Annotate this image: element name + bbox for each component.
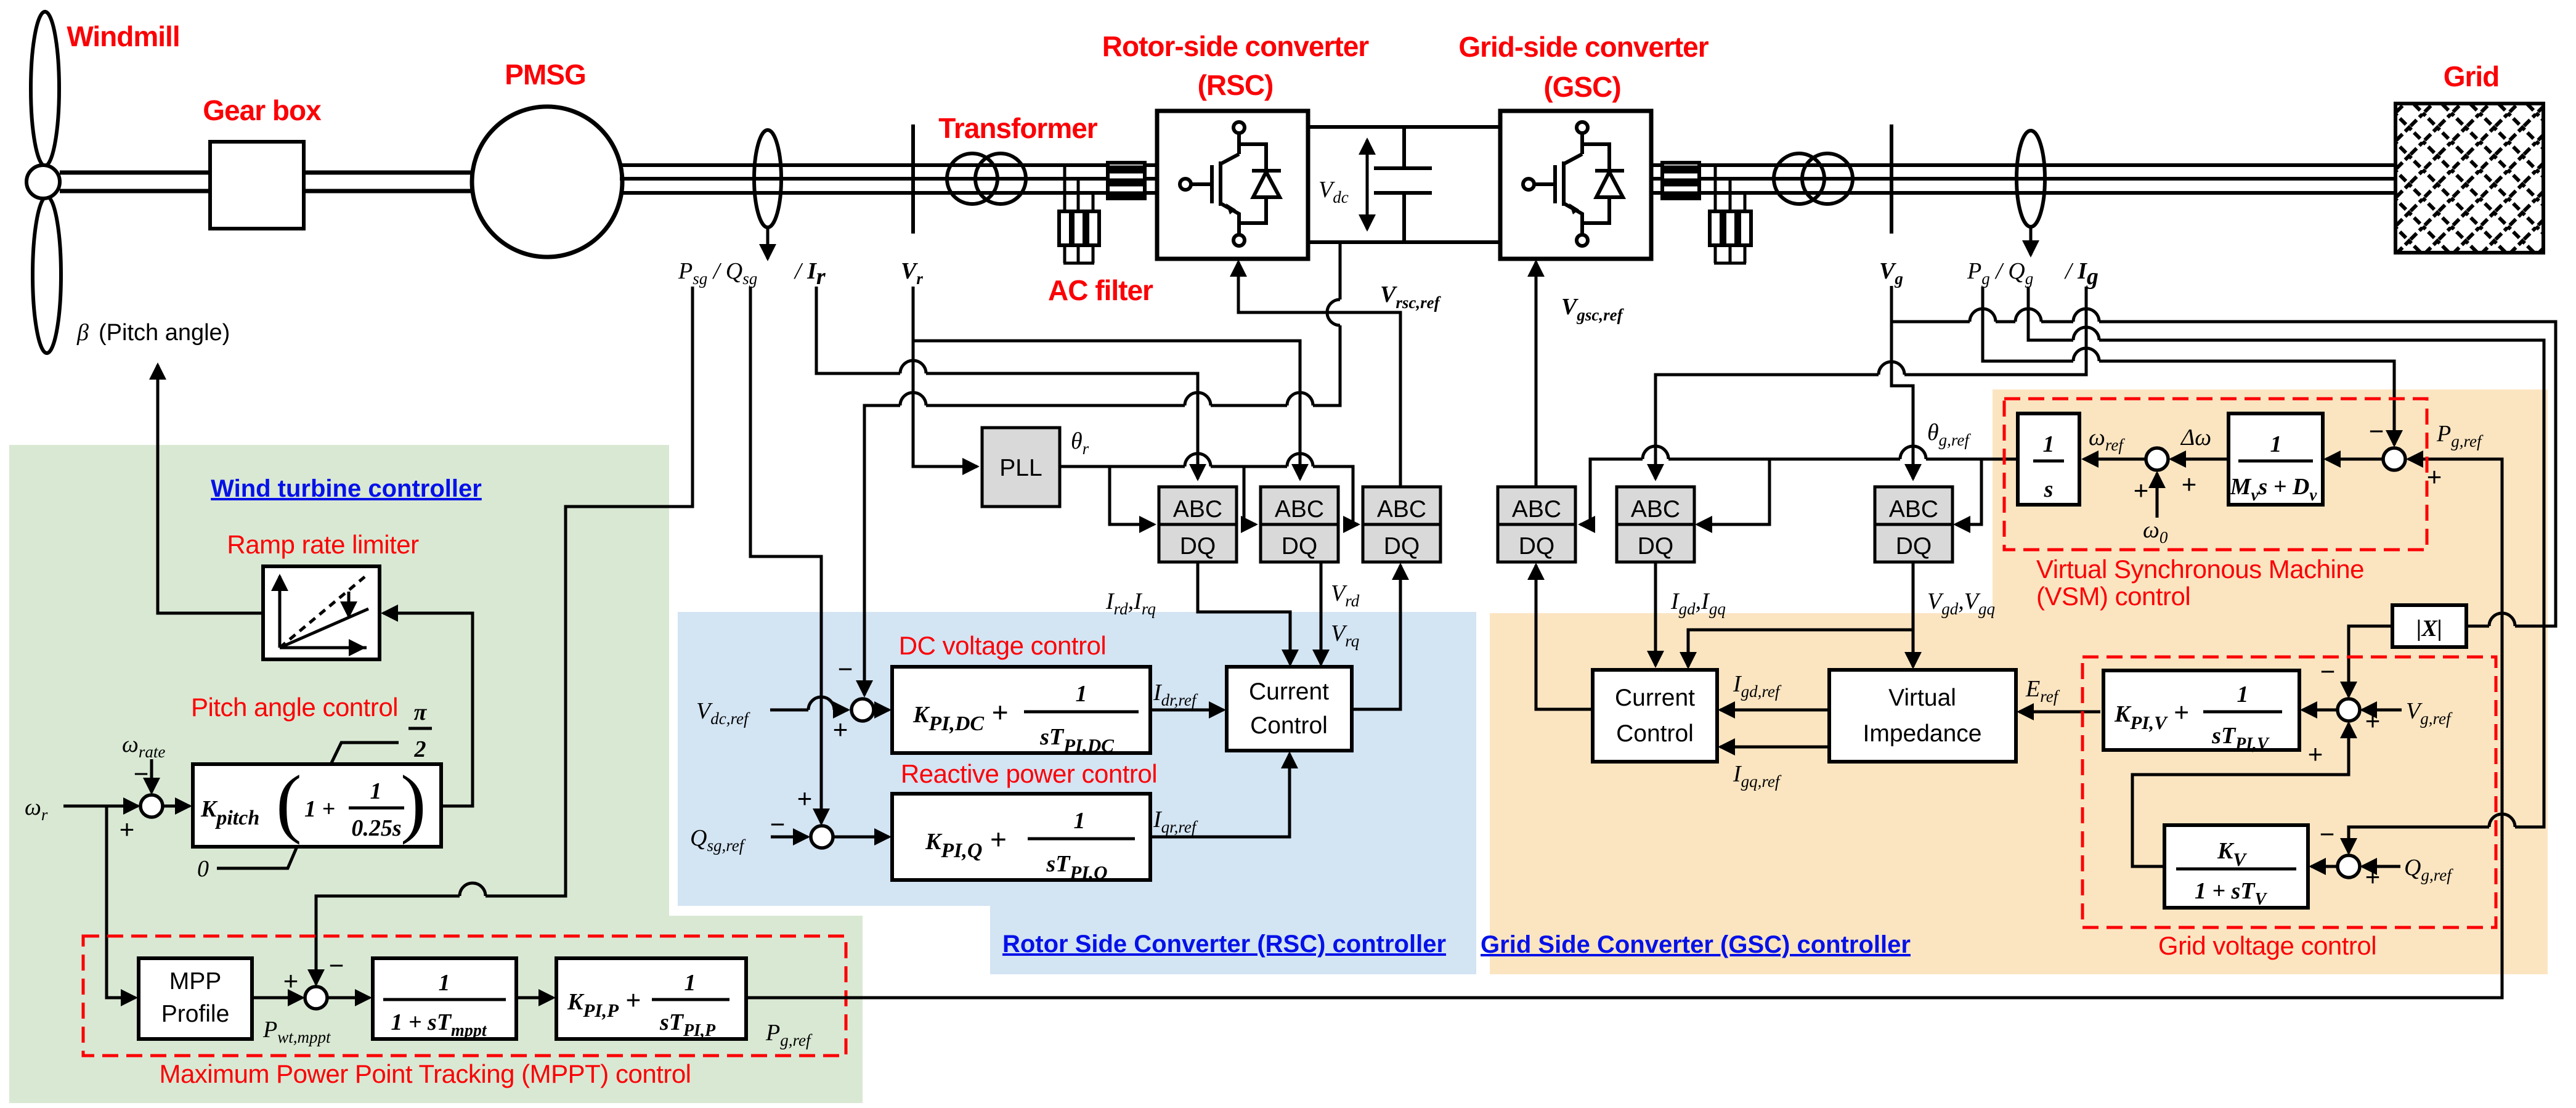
X box — [2392, 605, 2466, 647]
PMSG circle — [472, 107, 622, 257]
three-phase line PMSG to RSC — [620, 165, 1157, 193]
svg-text:ABC: ABC — [1889, 496, 1938, 523]
svg-text:DC voltage control: DC voltage control — [899, 631, 1107, 660]
RSC IGBT — [1180, 122, 1281, 246]
Vdc double arrow — [1366, 140, 1369, 229]
svg-text:Grid voltage control: Grid voltage control — [2158, 931, 2376, 960]
sum pitch — [140, 795, 163, 817]
current control RSC box — [1227, 667, 1352, 751]
saturation upper limit — [331, 743, 399, 764]
svg-text:(VSM) control: (VSM) control — [2036, 582, 2190, 611]
wire Ird Irq to CC — [1198, 562, 1290, 664]
ramp limiter dashed diagonal — [280, 577, 365, 648]
ABC/DQ box 4 — [1498, 487, 1575, 562]
wire Pgref long line — [746, 459, 2502, 998]
wire Vr branch to ABC2 — [913, 341, 1300, 479]
RSC controller blue region — [678, 612, 1476, 974]
KPI,V box — [2103, 670, 2299, 750]
svg-text:Wind turbine controller: Wind turbine controller — [211, 475, 482, 502]
gear box — [210, 142, 304, 229]
wire Vdc sense — [864, 242, 1340, 695]
ramp limiter solid diagonal — [280, 609, 368, 648]
KV box — [2164, 825, 2308, 908]
wire Vrd Vrq to CC — [1320, 562, 1323, 664]
svg-text:Transformer: Transformer — [938, 112, 1098, 144]
shaft windmill to gearbox — [60, 173, 210, 191]
svg-text:(: ( — [276, 760, 302, 845]
svg-text:Vr: Vr — [901, 258, 923, 288]
svg-text:1: 1 — [1074, 808, 1086, 834]
svg-text:0.25s: 0.25s — [351, 815, 401, 841]
svg-text:DQ: DQ — [1638, 533, 1674, 560]
svg-text:s: s — [2044, 476, 2054, 502]
AC filter 2 elements — [1710, 211, 1721, 245]
svg-text:+: + — [2308, 739, 2323, 768]
KPI,P box — [556, 958, 746, 1039]
svg-text:Ird,Irq: Ird,Irq — [1105, 589, 1156, 618]
wire theta_g,ref distribution — [1580, 459, 2018, 524]
svg-text:π: π — [414, 699, 428, 725]
svg-text:1: 1 — [685, 970, 696, 996]
sum V — [2338, 699, 2360, 721]
svg-text:Psg / Qsg: Psg / Qsg — [678, 258, 763, 288]
grid sensor arrow — [2030, 227, 2033, 255]
wind turbine controller green region — [9, 445, 863, 1103]
GSC IGBT — [1523, 122, 1624, 246]
svg-text:PMSG: PMSG — [505, 59, 585, 91]
svg-text:−: − — [329, 951, 344, 980]
svg-text:DQ: DQ — [1519, 533, 1555, 560]
Vr bus bar — [911, 124, 915, 234]
transformer 1 — [947, 153, 997, 204]
svg-text:Maximum Power Point Tracking (: Maximum Power Point Tracking (MPPT) cont… — [159, 1059, 691, 1088]
wire Vgsc,ref — [1535, 262, 1538, 487]
svg-text:/ Ig: / Ig — [2064, 258, 2099, 290]
svg-text:+: + — [2134, 476, 2149, 505]
grid sensor ellipse — [2017, 131, 2045, 227]
RSC box — [1157, 111, 1308, 259]
wire omega_r to sum — [63, 805, 138, 808]
svg-text:(Pitch angle): (Pitch angle) — [99, 320, 230, 346]
shaft gearbox to PMSG — [304, 173, 474, 191]
VSM dashed box — [2004, 399, 2427, 550]
wire Igd Igq to CC — [1654, 562, 1657, 666]
svg-text:Vrsc,ref: Vrsc,ref — [1380, 282, 1442, 312]
gsc control — [1498, 262, 2556, 853]
KPI,Q box — [892, 794, 1150, 880]
wire KV loop to Vsum bottom — [2132, 723, 2349, 866]
wire Vg branch right — [1891, 322, 2556, 626]
svg-text:2: 2 — [414, 736, 426, 762]
svg-text:0: 0 — [197, 856, 209, 882]
wire Qsg,ref input — [771, 836, 808, 839]
wire KPIQ to CC bottom — [1150, 754, 1290, 837]
svg-text:Vdc: Vdc — [1318, 177, 1349, 206]
wire Psg drop — [316, 287, 693, 961]
svg-text:Vrd: Vrd — [1331, 580, 1360, 610]
choke block 1 — [1108, 163, 1145, 198]
svg-text:(GSC): (GSC) — [1543, 71, 1620, 103]
svg-text:DQ: DQ — [1896, 533, 1932, 560]
PLL box — [982, 428, 1060, 507]
svg-text:ABC: ABC — [1377, 496, 1426, 523]
svg-text:Current: Current — [1249, 678, 1329, 705]
svg-text:): ) — [400, 760, 426, 845]
svg-text:Reactive power control: Reactive power control — [901, 759, 1157, 788]
svg-text:−: − — [838, 654, 853, 683]
MPPT dashed box — [83, 936, 846, 1056]
wire Vsum to KPIV — [2302, 709, 2338, 712]
DC link capacitor — [1374, 127, 1432, 242]
svg-text:−: − — [134, 759, 149, 788]
svg-text:1: 1 — [439, 970, 450, 996]
svg-text:1: 1 — [2043, 431, 2055, 457]
sum P — [2383, 448, 2405, 470]
svg-text:−: − — [2369, 417, 2384, 446]
green controller — [25, 320, 2502, 1088]
svg-text:+: + — [2365, 862, 2381, 891]
1/s box — [2018, 413, 2079, 505]
svg-text:Δω: Δω — [2180, 425, 2211, 450]
svg-text:1 +: 1 + — [304, 796, 335, 822]
sum MPPT — [305, 987, 327, 1009]
svg-text:Vgd,Vgq: Vgd,Vgq — [1927, 589, 1995, 618]
three-phase line GSC to grid — [1651, 165, 2395, 193]
transformer 2 — [1774, 153, 1824, 204]
ramp limiter arrow — [347, 592, 351, 616]
wire Mv block to omegasum — [2171, 458, 2229, 461]
sum Vdc — [851, 699, 874, 721]
wire Vdc,ref input — [770, 709, 848, 712]
svg-text:Current: Current — [1615, 685, 1695, 711]
KPI,DC box — [892, 667, 1150, 753]
wire theta_r distribution — [1060, 466, 1358, 524]
sensor arrow down — [766, 227, 770, 259]
sum Qsg — [811, 826, 833, 848]
windmill blade upper — [31, 12, 59, 166]
wire Eref — [2019, 711, 2100, 714]
current control GSC box — [1593, 670, 1717, 762]
wire omega_r branch to MPP — [107, 806, 136, 998]
svg-text:Control: Control — [1616, 720, 1694, 747]
wire Vgref to sum — [2362, 709, 2402, 712]
wire Igq,ref — [1720, 746, 1829, 749]
wire Pg drop — [1983, 287, 2394, 445]
power row — [26, 12, 2543, 353]
svg-text:Impedance: Impedance — [1863, 720, 1982, 747]
svg-text:−: − — [2320, 820, 2335, 849]
wire sum to KPIDC — [874, 709, 889, 712]
wire CC out to ABC3 — [1352, 565, 1400, 709]
saturation lower limit — [217, 847, 297, 868]
grid box — [2395, 104, 2543, 253]
svg-text:ABC: ABC — [1631, 496, 1680, 523]
wire KPIDC to CC — [1150, 709, 1224, 712]
ABC/DQ box 5 — [1617, 487, 1694, 562]
ABC/DQ box 3 — [1363, 487, 1440, 562]
svg-text:Windmill: Windmill — [67, 20, 179, 52]
backgrounds — [9, 389, 2548, 1103]
wire Qsum to KV — [2311, 865, 2338, 868]
svg-text:ABC: ABC — [1275, 496, 1324, 523]
svg-text:AC filter: AC filter — [1048, 274, 1153, 306]
svg-text:ABC: ABC — [1512, 496, 1561, 523]
ABC/DQ box 1 — [1159, 487, 1237, 562]
wire Vrsc,ref — [1238, 262, 1400, 487]
svg-text:Vg: Vg — [1879, 258, 1903, 288]
wire Qsg drop — [750, 287, 821, 823]
wire Ir drop — [816, 287, 1198, 479]
ramp rate limiter box — [263, 566, 380, 659]
sum Q — [2338, 855, 2360, 878]
wire Tmppt to KPIP — [516, 996, 553, 1000]
svg-text:1: 1 — [2237, 682, 2249, 707]
svg-text:Vgsc,ref: Vgsc,ref — [1561, 294, 1625, 324]
svg-text:Grid-side converter: Grid-side converter — [1458, 31, 1709, 63]
svg-text:β: β — [76, 320, 89, 346]
svg-text:Mvs + Dv: Mvs + Dv — [2230, 474, 2318, 504]
svg-text:−: − — [2320, 657, 2336, 686]
Vg bus bar — [1890, 124, 1893, 234]
wire Vg drop — [1891, 286, 1913, 479]
svg-text:Pg / Qg: Pg / Qg — [1967, 258, 2039, 288]
GSC box — [1500, 111, 1651, 259]
svg-text:+: + — [833, 715, 848, 744]
wire Ig drop — [1656, 287, 2086, 479]
svg-text:1: 1 — [370, 778, 382, 804]
svg-text:1: 1 — [1076, 681, 1087, 707]
svg-text:+: + — [2182, 470, 2197, 499]
virtual impedance box — [1829, 670, 2016, 762]
AC filter 1 taps — [1065, 165, 1093, 211]
windmill hub — [26, 165, 60, 198]
svg-text:Rotor Side Converter (RSC) con: Rotor Side Converter (RSC) controller — [1002, 931, 1446, 958]
ABC/DQ box 2 — [1261, 487, 1338, 562]
sum omega — [2146, 448, 2168, 470]
svg-text:Igd,Igq: Igd,Igq — [1670, 589, 1726, 618]
wire pitch loop to ramp — [383, 613, 473, 806]
svg-text:PLL: PLL — [999, 455, 1042, 481]
svg-text:Grid Side Converter (GSC) cont: Grid Side Converter (GSC) controller — [1481, 931, 1911, 958]
wire Psum to Mv — [2326, 458, 2382, 461]
svg-text:Virtual: Virtual — [1888, 685, 1956, 711]
wire Qg drop — [2028, 287, 2544, 853]
svg-text:1: 1 — [2270, 431, 2282, 457]
wire MPP to sum — [252, 996, 303, 1000]
AC filter 2 taps — [1715, 165, 1745, 211]
wire Vgd Vgq to VI and CC — [1912, 562, 1915, 667]
svg-text:+: + — [2427, 462, 2442, 491]
wire ramp output to beta — [158, 365, 263, 613]
svg-text:DQ: DQ — [1282, 533, 1318, 560]
svg-text:Rotor-side converter: Rotor-side converter — [1102, 30, 1370, 62]
svg-text:+: + — [797, 784, 813, 813]
ABC/DQ box 6 — [1875, 487, 1952, 562]
svg-text:+: + — [283, 966, 299, 995]
GVC dashed box — [2082, 657, 2496, 927]
svg-text:ABC: ABC — [1173, 496, 1222, 523]
svg-text:|X|: |X| — [2416, 616, 2442, 642]
DC link rails — [1308, 127, 1500, 242]
svg-text:Ramp rate limiter: Ramp rate limiter — [227, 530, 419, 559]
svg-text:+: + — [2365, 706, 2381, 735]
svg-text:θg,ref: θg,ref — [1927, 420, 1971, 449]
vsm gvc — [2004, 399, 2496, 960]
wire Qgref to sum — [2362, 865, 2400, 868]
svg-text:Pitch angle control: Pitch angle control — [191, 693, 398, 722]
svg-text:Virtual Synchronous Machine: Virtual Synchronous Machine — [2036, 555, 2364, 584]
svg-text:Control: Control — [1250, 712, 1328, 739]
wire Igd,ref — [1720, 709, 1829, 712]
wire sum to KPIQ — [833, 836, 889, 839]
svg-text:θr: θr — [1071, 428, 1089, 458]
svg-text:−: − — [770, 810, 786, 839]
svg-text:(RSC): (RSC) — [1198, 69, 1274, 101]
svg-text:/ Ir: / Ir — [794, 258, 826, 290]
wire sum to Kpitch — [162, 805, 190, 808]
wire CCg out to ABC4 — [1536, 565, 1591, 709]
svg-text:Gear box: Gear box — [203, 94, 322, 126]
choke block 2 — [1662, 163, 1699, 198]
rsc control — [316, 242, 1442, 984]
svg-text:MPP: MPP — [169, 968, 222, 995]
label pi/2 — [408, 699, 432, 762]
stator sensor ellipse — [754, 130, 781, 227]
ramp limiter axes — [280, 576, 367, 648]
wire omegasum to 1/s — [2084, 458, 2146, 461]
wire omega_rate to sum — [150, 759, 153, 792]
svg-text:+: + — [120, 815, 135, 844]
svg-text:Profile: Profile — [161, 1001, 230, 1027]
MPP profile box — [139, 958, 252, 1039]
windmill blade lower — [33, 197, 61, 353]
AC filter 1 elements — [1059, 211, 1071, 245]
wire Vr drop to PLL — [913, 287, 977, 466]
svg-text:DQ: DQ — [1180, 533, 1216, 560]
svg-text:DQ: DQ — [1384, 533, 1420, 560]
Kpitch box — [193, 764, 441, 847]
Mv block — [2229, 413, 2323, 505]
wire omega0 to sum — [2156, 473, 2159, 518]
wire sum to Tmppt box — [327, 996, 370, 1000]
svg-text:Grid: Grid — [2444, 60, 2500, 92]
wire X to Vsum — [2349, 626, 2392, 696]
Tmppt box — [373, 958, 516, 1039]
GSC controller orange region — [1993, 389, 2548, 613]
